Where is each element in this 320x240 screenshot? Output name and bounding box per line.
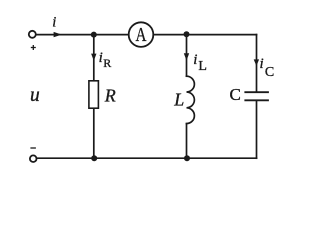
svg-text:u: u [30, 85, 40, 106]
svg-text:i: i [260, 56, 264, 72]
svg-text:R: R [103, 56, 111, 70]
svg-text:C: C [230, 85, 241, 104]
svg-text:i: i [52, 15, 56, 31]
svg-text:R: R [104, 86, 116, 106]
svg-text:i: i [193, 52, 197, 68]
svg-text:L: L [173, 90, 184, 110]
svg-text:i: i [99, 50, 103, 66]
svg-text:L: L [198, 59, 207, 74]
svg-text:A: A [136, 24, 147, 46]
svg-text:C: C [265, 65, 274, 80]
